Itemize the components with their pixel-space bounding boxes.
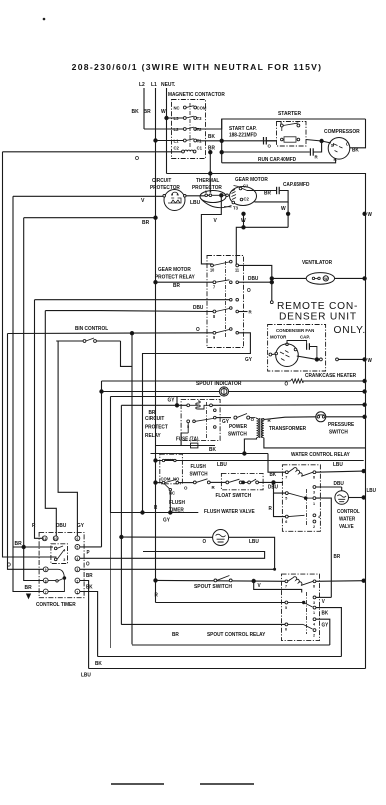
svg-text:GY: GY xyxy=(322,622,329,628)
timer cam contact 3 xyxy=(54,558,57,561)
svg-text:FLOAT SWITCH: FLOAT SWITCH xyxy=(215,493,251,499)
relay linkage dash line xyxy=(206,402,208,438)
wire junction vent rail xyxy=(363,277,366,280)
svg-text:10: 10 xyxy=(54,537,58,541)
gear motor terminal C2 xyxy=(240,198,243,201)
wire rail O left xyxy=(3,152,57,557)
wire L2 vertical xyxy=(143,88,145,129)
wire L2 to contactor xyxy=(144,128,183,130)
relay contact 6-4 xyxy=(285,515,288,518)
spout switch xyxy=(214,579,217,582)
relay terminal 3 xyxy=(313,486,316,489)
wire transformer secondary right xyxy=(264,438,366,448)
svg-text:BK: BK xyxy=(132,109,139,115)
svg-text:2: 2 xyxy=(313,633,315,637)
timer terminal 11 xyxy=(42,536,47,541)
svg-text:8: 8 xyxy=(45,579,47,583)
control timer box xyxy=(39,532,84,597)
wire V line xyxy=(13,195,164,197)
float switch box xyxy=(221,473,263,489)
thermal protector terminals xyxy=(205,194,208,197)
svg-text:C1: C1 xyxy=(243,183,249,188)
wire valve to rail xyxy=(349,497,364,499)
svg-text:BK: BK xyxy=(352,147,359,153)
svg-text:VALVE: VALVE xyxy=(339,524,354,530)
wire GY upper line xyxy=(111,396,221,398)
wire row9 line xyxy=(8,332,214,335)
wire junction thermal-3 xyxy=(220,194,223,197)
wire T2 riser xyxy=(195,119,365,129)
svg-text:GY: GY xyxy=(163,517,171,523)
svg-text:S: S xyxy=(331,143,334,148)
svg-text:RUN CAP.40MFD: RUN CAP.40MFD xyxy=(258,157,296,163)
svg-text:R: R xyxy=(334,157,338,162)
wire float out xyxy=(259,481,284,483)
flush timer motor coil xyxy=(162,459,164,461)
svg-text:5: 5 xyxy=(285,606,288,610)
wire faint fold line xyxy=(109,513,111,649)
svg-text:LBU: LBU xyxy=(333,462,343,468)
svg-text:11: 11 xyxy=(43,537,47,541)
wire W horizontal xyxy=(167,174,366,669)
wire junction C2-W xyxy=(286,212,289,215)
svg-text:10: 10 xyxy=(210,267,215,272)
svg-text:O: O xyxy=(135,156,139,162)
relay contact 9 xyxy=(213,331,216,334)
svg-text:O: O xyxy=(196,327,200,333)
svg-text:C2: C2 xyxy=(174,145,180,150)
timer terminal 1 xyxy=(75,589,80,594)
wire starter to S junction xyxy=(306,140,322,142)
wire R line to row7 NC xyxy=(35,299,231,301)
wire junction GY xyxy=(175,404,178,407)
wire BK out of 2 xyxy=(80,581,89,669)
connector plug xyxy=(320,358,323,361)
wire junction coil rail xyxy=(362,469,365,472)
relay linkage dash line xyxy=(306,489,308,525)
wire junction W to L3 row xyxy=(165,116,168,119)
wire junction vent left xyxy=(270,277,273,280)
gear motor terminal C1 xyxy=(239,187,242,190)
wire bin rail xyxy=(131,333,133,644)
compressor circle xyxy=(328,138,350,160)
svg-text:BK: BK xyxy=(95,661,102,667)
contactor linkage dash line xyxy=(189,103,191,147)
svg-text:T3: T3 xyxy=(197,116,202,121)
timer terminal 6 xyxy=(75,536,80,541)
svg-text:SWITCH: SWITCH xyxy=(329,429,348,435)
svg-text:W: W xyxy=(281,206,286,212)
capacitor CAP.65MFD xyxy=(276,187,278,194)
wire GY line to valve xyxy=(111,512,199,514)
svg-text:6: 6 xyxy=(285,628,287,632)
svg-text:DENSER UNIT: DENSER UNIT xyxy=(279,312,357,323)
crankcase heater line xyxy=(102,380,291,382)
wire GY rail vertical xyxy=(110,397,112,513)
wire junction GY flush xyxy=(169,511,172,514)
svg-text:TRANSFORMER: TRANSFORMER xyxy=(269,426,307,432)
svg-text:O: O xyxy=(247,288,251,294)
svg-text:SWITCH: SWITCH xyxy=(190,471,209,477)
svg-text:2: 2 xyxy=(297,121,299,125)
wire LBU line xyxy=(186,195,206,197)
wire junction T1 xyxy=(220,139,223,142)
wire ventilator left xyxy=(272,277,306,279)
svg-text:DBU: DBU xyxy=(193,305,204,311)
wire junction DBU xyxy=(270,281,273,284)
wire relay out riser xyxy=(239,265,272,301)
wire S to compressor xyxy=(322,141,331,143)
wire BR subbox feed xyxy=(13,546,53,548)
svg-text:ONLY.: ONLY. xyxy=(334,325,367,336)
svg-text:V: V xyxy=(258,583,262,589)
wire junction spout left xyxy=(154,579,157,582)
wire flush switch to float xyxy=(210,481,226,483)
wire DBU to valve xyxy=(316,486,342,488)
svg-text:LBU: LBU xyxy=(217,462,227,468)
timer cam contact 4 xyxy=(54,547,57,550)
svg-text:1: 1 xyxy=(313,611,316,615)
svg-text:8: 8 xyxy=(213,314,216,319)
wire NC drop xyxy=(169,491,171,513)
wire LBU line xyxy=(156,460,364,462)
svg-text:CRANKCASE HEATER: CRANKCASE HEATER xyxy=(305,373,356,379)
svg-text:BK: BK xyxy=(322,610,329,616)
svg-text:W: W xyxy=(368,212,373,218)
svg-text:8: 8 xyxy=(313,584,316,588)
wire T1 line to starter xyxy=(197,140,277,142)
spout relay contact 5-1 xyxy=(285,601,288,604)
svg-text:PROTECT: PROTECT xyxy=(145,424,168,430)
wire DBU drop to pin5 xyxy=(274,482,286,493)
wire relay coil out to rail xyxy=(316,471,364,472)
fuse symbol xyxy=(191,443,198,448)
condenser capacitor xyxy=(306,343,308,350)
wire junction V spout xyxy=(252,579,255,582)
wire junction heater rail xyxy=(363,379,366,382)
relay contact 10-11 xyxy=(211,264,214,267)
svg-text:PROTECTOR: PROTECTOR xyxy=(192,185,222,191)
wire DBU rail to 10 xyxy=(45,311,56,537)
svg-text:BR: BR xyxy=(172,632,179,638)
wire V drop xyxy=(201,195,221,265)
svg-text:FLUSH: FLUSH xyxy=(191,464,207,470)
wire row8 line xyxy=(44,310,46,312)
svg-text:DBU: DBU xyxy=(334,481,345,487)
wire junction BR rail xyxy=(22,545,25,548)
wire junction row7 xyxy=(154,281,157,284)
svg-text:7: 7 xyxy=(285,475,287,479)
svg-text:W: W xyxy=(241,218,246,224)
wire V out of 3 xyxy=(316,596,331,598)
flush timer box xyxy=(160,454,183,484)
svg-text:7: 7 xyxy=(213,284,216,289)
svg-text:BR: BR xyxy=(334,554,341,560)
svg-text:DBU: DBU xyxy=(248,276,259,282)
svg-text:LBU: LBU xyxy=(366,488,376,494)
relay linkage dash line xyxy=(225,261,227,338)
svg-text:REMOTE CON-: REMOTE CON- xyxy=(277,301,358,312)
wire T1 vertical xyxy=(221,119,223,163)
wire rail V left xyxy=(13,196,43,591)
svg-text:SWITCH: SWITCH xyxy=(228,431,247,437)
relay contact row xyxy=(187,420,190,423)
svg-text:C1: C1 xyxy=(197,145,203,150)
svg-text:POWER: POWER xyxy=(229,424,247,430)
relay coil 7-8 xyxy=(285,471,288,474)
wire spout coil to rail xyxy=(316,580,364,583)
flush water valve xyxy=(213,530,229,546)
wire junction fan rail xyxy=(363,358,366,361)
wire O line to coil C2 xyxy=(3,151,182,153)
svg-text:3: 3 xyxy=(63,558,65,562)
svg-text:8: 8 xyxy=(313,475,316,479)
wire R bottom line xyxy=(222,159,336,163)
wire pressure switch to rail xyxy=(326,416,365,418)
timer terminal 8 xyxy=(43,578,48,583)
remote condenser box xyxy=(268,325,326,372)
relay contact 7 xyxy=(213,281,216,284)
svg-text:O: O xyxy=(184,485,188,490)
svg-text:5: 5 xyxy=(285,496,288,500)
wire plug to rail xyxy=(338,358,364,360)
svg-text:5: 5 xyxy=(280,121,282,125)
svg-text:BR: BR xyxy=(25,585,32,591)
wire junction L1 row xyxy=(154,139,157,142)
timer cam box xyxy=(51,544,68,564)
svg-text:VENTILATOR: VENTILATOR xyxy=(302,260,332,266)
svg-text:STARTER: STARTER xyxy=(278,111,301,117)
svg-text:C2: C2 xyxy=(244,196,250,201)
circuit protector U-CP xyxy=(164,190,185,211)
svg-text:R: R xyxy=(269,506,273,512)
wire BK line xyxy=(151,453,269,455)
speck xyxy=(43,18,45,20)
wire W stub xyxy=(243,214,245,228)
svg-text:LBU: LBU xyxy=(81,672,91,678)
condenser fan motor xyxy=(276,344,299,367)
wire NO to flush switch xyxy=(179,482,194,484)
svg-text:R: R xyxy=(154,592,158,598)
svg-text:COMPRESSOR: COMPRESSOR xyxy=(324,129,360,135)
svg-text:V: V xyxy=(322,599,326,605)
svg-text:CONTROL: CONTROL xyxy=(337,509,360,515)
pressure switch xyxy=(316,412,326,422)
relay contact 8 xyxy=(213,310,216,313)
wire startcap to starter xyxy=(266,140,276,142)
thermal protector body xyxy=(200,191,226,203)
svg-text:W: W xyxy=(368,358,373,364)
svg-text:FUSE (7A): FUSE (7A) xyxy=(176,436,199,442)
wire BR out of 3 xyxy=(80,568,275,570)
svg-text:GY: GY xyxy=(77,523,85,529)
wire junction S xyxy=(320,139,323,142)
wire relay to power switch xyxy=(216,417,231,419)
condenser terminal xyxy=(269,353,272,356)
wire junction W stub xyxy=(242,226,245,229)
svg-text:9: 9 xyxy=(213,335,216,340)
circuit protect relay box xyxy=(181,399,220,440)
svg-text:GEAR MOTOR: GEAR MOTOR xyxy=(235,177,268,183)
starter coil xyxy=(281,138,284,141)
svg-text:4: 4 xyxy=(313,622,316,626)
gear motor terminal T3 xyxy=(232,201,235,204)
svg-text:O: O xyxy=(203,539,207,545)
flush switch xyxy=(193,481,196,484)
svg-text:O: O xyxy=(86,561,90,567)
svg-text:V: V xyxy=(141,198,145,204)
wire runcap to S junction xyxy=(313,141,321,152)
wire junction DBU xyxy=(272,481,275,484)
flush timer contact xyxy=(162,481,165,484)
wire junction valve rail xyxy=(362,496,365,499)
timer terminal 4 xyxy=(75,556,80,561)
wire spout row6 feed xyxy=(121,623,285,625)
svg-text:R: R xyxy=(154,505,158,511)
svg-text:208-230/60/1 (3WIRE WITH NEUTR: 208-230/60/1 (3WIRE WITH NEUTRAL FOR 115… xyxy=(72,62,323,72)
svg-text:PRESSURE: PRESSURE xyxy=(328,422,355,428)
bin control switch xyxy=(56,340,83,342)
svg-text:W: W xyxy=(324,277,328,281)
svg-text:1: 1 xyxy=(76,590,78,594)
water control relay box xyxy=(282,465,320,532)
svg-text:BK: BK xyxy=(208,134,215,140)
wire valve right LBU xyxy=(229,537,275,569)
svg-text:GEAR MOTOR: GEAR MOTOR xyxy=(158,267,191,273)
svg-text:THERMAL: THERMAL xyxy=(196,178,219,184)
svg-text:PROTECT RELAY: PROTECT RELAY xyxy=(155,274,196,280)
timer terminal 7 xyxy=(43,589,48,594)
svg-text:L2: L2 xyxy=(139,82,145,88)
spout relay linkage dash line xyxy=(306,592,308,634)
power switch xyxy=(234,416,237,419)
svg-text:BR: BR xyxy=(144,109,151,115)
wire BK drop to relay coil xyxy=(268,454,285,473)
magnetic contactor box xyxy=(172,100,206,159)
svg-text:SPOUT INDICATOR: SPOUT INDICATOR xyxy=(196,381,242,387)
timer motor linkage xyxy=(48,568,58,570)
wire junction C1 tee xyxy=(209,151,212,154)
wire spout row5 feed xyxy=(155,599,157,603)
svg-text:188-221MFD: 188-221MFD xyxy=(229,132,257,138)
svg-text:BR: BR xyxy=(142,220,149,226)
svg-text:3: 3 xyxy=(313,490,315,494)
flush timer NC terminal xyxy=(169,488,171,490)
wire transformer secondary left xyxy=(244,438,256,454)
svg-text:LBU: LBU xyxy=(190,200,200,206)
wire junction fan xyxy=(315,358,318,361)
svg-text:O: O xyxy=(284,381,288,387)
spout indicator lamp xyxy=(219,387,228,396)
svg-text:2: 2 xyxy=(76,579,78,583)
capacitor RUN CAP xyxy=(309,148,311,155)
svg-text:CIRCUIT: CIRCUIT xyxy=(152,178,171,184)
spout relay terminal 3 xyxy=(313,596,316,599)
wire R rail to 11 xyxy=(35,300,43,539)
svg-text:NC: NC xyxy=(174,105,181,110)
starter contact xyxy=(280,124,283,127)
svg-text:FLUSH WATER VALVE: FLUSH WATER VALVE xyxy=(204,509,255,515)
svg-text:6: 6 xyxy=(285,520,287,524)
wire L1 to contactor xyxy=(156,140,184,142)
float switch contacts xyxy=(226,481,229,484)
svg-text:BR: BR xyxy=(86,573,93,579)
svg-text:GY: GY xyxy=(245,357,253,363)
wire coil row to rail xyxy=(212,404,364,407)
svg-text:SPOUT CONTROL RELAY: SPOUT CONTROL RELAY xyxy=(207,632,266,638)
wire COM feed xyxy=(156,482,163,484)
wire V link xyxy=(254,581,302,593)
svg-text:BIN CONTROL: BIN CONTROL xyxy=(75,326,108,332)
wire junction W line xyxy=(242,212,245,215)
svg-text:V: V xyxy=(214,218,218,224)
svg-text:BK: BK xyxy=(209,447,216,453)
wire W stub to L3 row xyxy=(167,117,184,119)
svg-text:DBU: DBU xyxy=(56,523,67,529)
wire fuse line xyxy=(156,433,182,446)
svg-text:CONDENSER FAN: CONDENSER FAN xyxy=(276,328,315,333)
wire BR line xyxy=(24,217,156,219)
wire junction lamp rail xyxy=(363,390,366,393)
svg-text:WATER CONTROL RELAY: WATER CONTROL RELAY xyxy=(291,452,350,458)
svg-text:3: 3 xyxy=(76,568,78,572)
svg-text:BK: BK xyxy=(270,472,277,478)
svg-text:COM: COM xyxy=(160,476,170,481)
wire compressor C drop xyxy=(350,119,366,148)
wire valve left xyxy=(121,536,212,538)
wire spout switch line xyxy=(156,579,286,582)
control water valve xyxy=(335,491,349,505)
svg-text:SPOUT SWITCH: SPOUT SWITCH xyxy=(194,584,232,590)
wire O out of 4 xyxy=(80,552,265,559)
wire relay out 1 drop V net xyxy=(316,498,332,597)
svg-text:CAP.65MFD: CAP.65MFD xyxy=(283,182,310,188)
wire junction LBU left xyxy=(154,459,157,462)
crankcase heater element xyxy=(291,379,304,383)
relay coil xyxy=(187,404,190,407)
wire R drop to pin6 xyxy=(274,493,286,516)
wire W drop xyxy=(236,227,288,265)
wire P drop to timer 5 xyxy=(101,381,103,547)
spout relay coil xyxy=(285,580,288,583)
wire junction BR-L1 xyxy=(154,216,157,219)
wire rail BR left xyxy=(24,218,44,581)
wire GY link xyxy=(176,397,178,406)
wire GY rail 2 xyxy=(120,405,122,624)
svg-text:2: 2 xyxy=(313,525,315,529)
svg-text:9: 9 xyxy=(45,568,47,572)
gear motor body xyxy=(230,187,257,206)
wire NEUT vertical xyxy=(166,88,168,174)
wire 1 out xyxy=(80,592,98,657)
svg-text:START CAP.: START CAP. xyxy=(229,126,257,132)
svg-text:COM: COM xyxy=(197,105,207,110)
wire C1 to cap xyxy=(247,190,276,192)
wire row8 right stub xyxy=(239,311,248,313)
compressor internals xyxy=(334,143,343,152)
svg-text:R: R xyxy=(315,154,319,159)
wire junction valve tap xyxy=(120,535,123,538)
wire GY rail to 6 xyxy=(58,341,77,536)
svg-text:NO: NO xyxy=(173,476,180,481)
relay NC contacts xyxy=(230,298,233,301)
wire GY main line xyxy=(121,404,188,406)
svg-text:T3: T3 xyxy=(233,205,238,210)
starter box xyxy=(277,122,307,147)
wire C2 vertical to W line xyxy=(287,202,289,227)
svg-text:W: W xyxy=(161,109,166,115)
svg-text:7: 7 xyxy=(45,590,47,594)
